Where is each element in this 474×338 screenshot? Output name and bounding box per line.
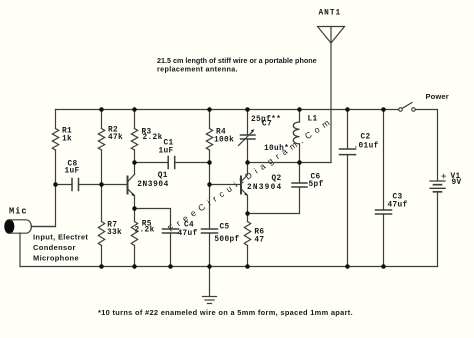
wire C8 right xyxy=(79,184,102,186)
wire C3 upper lead xyxy=(383,110,385,211)
microphone MIC xyxy=(5,220,56,233)
wire C2 upper lead xyxy=(347,110,349,150)
wire rail2 middle xyxy=(101,150,103,222)
svg-text:R4: R4 xyxy=(216,128,226,136)
svg-text:*10 turns of #22 enameled wire: *10 turns of #22 enameled wire on a 5mm … xyxy=(98,308,353,317)
svg-text:1k: 1k xyxy=(62,135,72,143)
capacitor C2 xyxy=(340,149,356,155)
svg-text:33k: 33k xyxy=(107,229,122,237)
resistor R2 xyxy=(98,129,104,151)
svg-text:10uh*: 10uh* xyxy=(264,145,289,153)
wire rail2 lower xyxy=(101,246,103,267)
wire C1 right xyxy=(175,162,210,164)
wire C2 lower lead xyxy=(347,155,349,267)
svg-text:500pf: 500pf xyxy=(214,236,239,244)
svg-text:2N3904: 2N3904 xyxy=(247,184,282,192)
wire R5 lower xyxy=(134,246,136,267)
wire battery bottom to rail xyxy=(437,192,439,267)
wire oscillator node row xyxy=(248,162,332,164)
wire mic ground stem xyxy=(19,233,21,267)
wire Q2 emitter down xyxy=(247,196,249,222)
wire L1 upper lead xyxy=(299,110,301,123)
wire left rail to mic xyxy=(31,150,55,227)
capacitor C5 xyxy=(202,229,218,233)
svg-text:47k: 47k xyxy=(108,134,123,142)
wire C1 left xyxy=(135,162,169,164)
svg-text:5pf: 5pf xyxy=(309,181,324,189)
svg-text:C1: C1 xyxy=(164,140,174,148)
wire C7 upper lead xyxy=(247,110,249,136)
svg-text:2.2k: 2.2k xyxy=(143,134,163,142)
wire emitter row to C6 xyxy=(248,213,300,215)
battery V1 xyxy=(430,174,446,192)
transistor Q1 xyxy=(128,174,135,196)
svg-text:replacement antenna.: replacement antenna. xyxy=(157,65,238,74)
wire switch to battery corner xyxy=(415,110,437,182)
wire C8 left xyxy=(56,184,73,186)
resistor R3 xyxy=(131,129,137,151)
wire bottom rail xyxy=(20,266,438,268)
wire L1 lower lead xyxy=(299,144,301,163)
svg-text:47uf: 47uf xyxy=(178,230,198,238)
wire emitter to C4 xyxy=(135,209,171,230)
svg-text:C5: C5 xyxy=(220,223,230,231)
svg-text:R1: R1 xyxy=(62,128,72,136)
svg-text:9V: 9V xyxy=(452,179,462,187)
wire R3 to Q1 collector xyxy=(134,150,136,175)
resistor R1 xyxy=(52,129,58,151)
wire rail2 upper lead xyxy=(101,110,103,129)
svg-text:C3: C3 xyxy=(393,194,403,202)
capacitor C1 xyxy=(168,157,175,169)
wire Q2 base xyxy=(210,184,241,186)
svg-text:R6: R6 xyxy=(254,229,264,237)
svg-text:2N3904: 2N3904 xyxy=(137,181,169,189)
wire R6 lower xyxy=(247,246,249,267)
wire C7 to collector node xyxy=(247,139,249,175)
wire left rail upper lead xyxy=(55,110,57,129)
capacitor C4 xyxy=(163,229,179,233)
switch S1 power xyxy=(399,103,416,112)
svg-text:C2: C2 xyxy=(361,134,371,142)
svg-text:100k: 100k xyxy=(214,136,234,144)
inductor L1 xyxy=(293,122,299,144)
transistor Q2 xyxy=(241,175,248,196)
ground xyxy=(203,267,217,304)
resistor R5 xyxy=(131,222,137,246)
wire rail3 upper lead xyxy=(134,110,136,129)
wire top rail xyxy=(56,109,399,111)
wire C3 lower lead xyxy=(383,214,385,267)
svg-text:Q1: Q1 xyxy=(158,172,168,180)
resistor R7 xyxy=(98,222,104,246)
svg-text:Power: Power xyxy=(426,92,449,101)
svg-text:Condensor: Condensor xyxy=(33,243,76,252)
capacitor C7 variable xyxy=(239,129,256,145)
resistor R4 xyxy=(206,129,212,151)
svg-text:Q2: Q2 xyxy=(272,175,282,183)
svg-text:.01uf: .01uf xyxy=(354,143,379,151)
svg-text:47: 47 xyxy=(254,237,264,245)
svg-text:L1: L1 xyxy=(308,116,318,124)
antenna ANT1 xyxy=(318,27,345,163)
svg-text:Microphone: Microphone xyxy=(33,254,79,263)
svg-text:ANT1: ANT1 xyxy=(319,10,341,18)
wire rail4 middle xyxy=(209,150,211,229)
svg-text:1uF: 1uF xyxy=(65,168,80,176)
capacitor C8 xyxy=(72,179,79,191)
svg-text:1uF: 1uF xyxy=(159,147,174,155)
wire C6 upper lead xyxy=(299,163,301,184)
svg-text:Mic: Mic xyxy=(9,207,28,217)
svg-text:C7: C7 xyxy=(262,121,272,129)
wire Q1 base xyxy=(102,184,127,186)
capacitor C6 xyxy=(292,183,307,187)
wire rail4 upper lead xyxy=(209,110,211,129)
wire C6 lower lead xyxy=(299,187,301,214)
svg-text:2.2k: 2.2k xyxy=(135,227,155,235)
svg-text:Input, Electret: Input, Electret xyxy=(33,233,88,242)
wire Q1 emitter down xyxy=(134,196,136,222)
svg-text:47uf: 47uf xyxy=(388,202,408,210)
wire C4 lower xyxy=(170,233,172,267)
resistor R6 xyxy=(244,222,250,246)
capacitor C3 xyxy=(376,210,392,214)
svg-text:C4: C4 xyxy=(184,222,194,230)
wire C5 lower xyxy=(209,233,211,267)
